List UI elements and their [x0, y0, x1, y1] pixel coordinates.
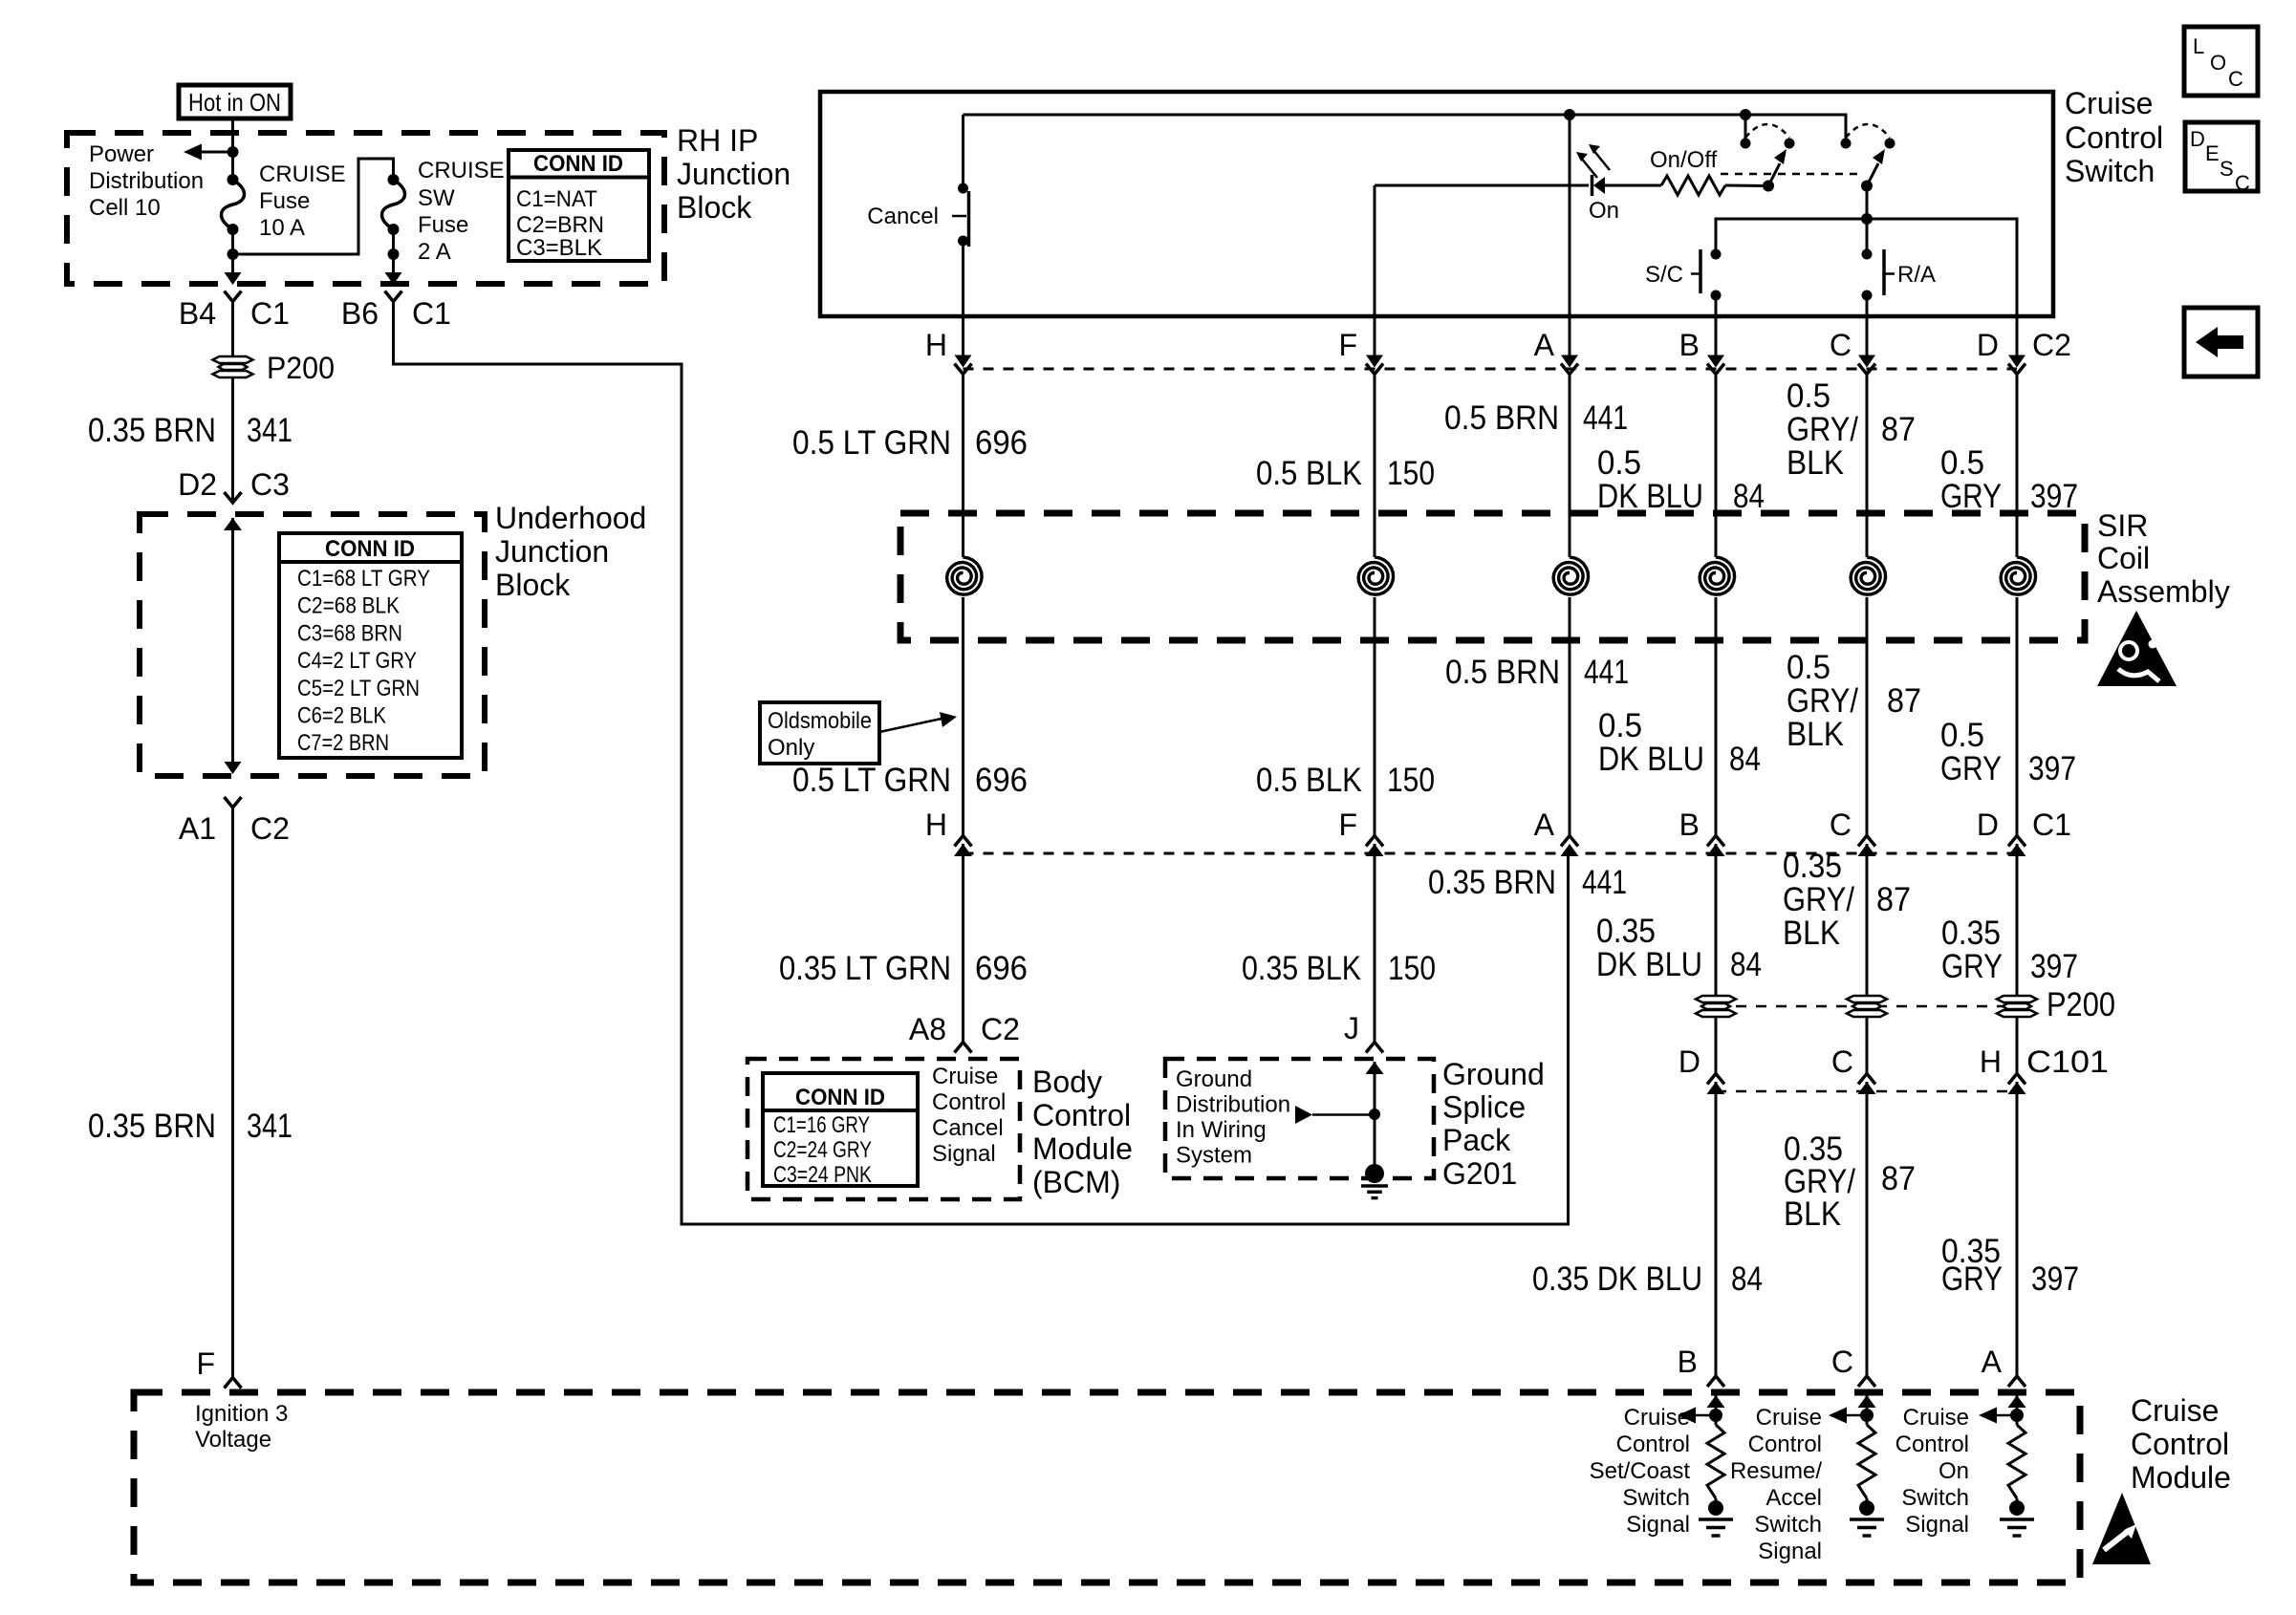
- wire SIR coil to C1 row: [1569, 597, 1571, 836]
- svg-text:Power: Power: [89, 141, 154, 167]
- svg-text:C2=68 BLK: C2=68 BLK: [297, 593, 400, 619]
- svg-text:0.5 BLK: 0.5 BLK: [1256, 455, 1362, 492]
- ground dot set/coast: [1708, 1500, 1723, 1516]
- inline connector P200 pin B: [1696, 996, 1736, 1017]
- svg-text:C1=68 LT GRY: C1=68 LT GRY: [297, 566, 430, 592]
- svg-text:R/A: R/A: [1897, 262, 1936, 288]
- resistor module set/coast pull-down: [1707, 1425, 1724, 1498]
- wire to SIR coil: [1715, 375, 1718, 558]
- connector C2 pin F chevron: [1366, 364, 1383, 375]
- svg-text:DK BLU: DK BLU: [1596, 946, 1702, 983]
- svg-text:C1: C1: [250, 296, 290, 331]
- switch R/A pushbutton: [1862, 249, 1873, 260]
- svg-text:Cruise: Cruise: [2065, 86, 2153, 120]
- wire R/A to pin C: [1866, 295, 1869, 355]
- stub to on/off switch contact: [1744, 115, 1747, 141]
- svg-text:Cruise: Cruise: [1903, 1405, 1969, 1431]
- switch internal top bus wire: [964, 115, 1847, 143]
- svg-text:BLK: BLK: [1787, 716, 1844, 753]
- module ESD triangle: [2092, 1493, 2151, 1564]
- wire pin F vertical: [1374, 185, 1376, 355]
- svg-text:10 A: 10 A: [259, 215, 305, 241]
- svg-text:0.5: 0.5: [1940, 444, 1984, 482]
- node top bus at on/off switch: [1740, 109, 1751, 120]
- svg-text:Control: Control: [2065, 120, 2163, 155]
- svg-text:Switch: Switch: [2065, 154, 2155, 188]
- Oldsmobile Only arrow: [879, 719, 942, 732]
- svg-text:Distribution: Distribution: [89, 168, 204, 194]
- svg-text:Signal: Signal: [1626, 1512, 1690, 1538]
- svg-text:System: System: [1176, 1143, 1252, 1169]
- connector row C1 dashed line: [964, 852, 2018, 855]
- wire to SIR coil: [1374, 375, 1376, 558]
- svg-text:S: S: [2220, 157, 2234, 181]
- switch on/off dashed arc: [1745, 124, 1789, 138]
- svg-text:0.5 BLK: 0.5 BLK: [1256, 762, 1362, 799]
- connector C2 pin D chevron: [2008, 364, 2025, 375]
- node ground distribution tap: [1369, 1109, 1380, 1120]
- switch on/off contacts: [1741, 139, 1751, 149]
- wire D C1 to P200: [2016, 844, 2019, 996]
- svg-text:C1=16 GRY: C1=16 GRY: [773, 1112, 870, 1138]
- svg-text:GRY/: GRY/: [1787, 411, 1858, 448]
- wire D P200 to C101: [2016, 1017, 2019, 1074]
- svg-text:C: C: [1830, 807, 1852, 842]
- wire SIR coil to C1 row: [2016, 597, 2019, 836]
- connector C101 pin D chevron: [1707, 1074, 1724, 1085]
- nav arrow box: [2184, 308, 2258, 377]
- wire B P200 to C101: [1715, 1017, 1718, 1074]
- svg-text:150: 150: [1388, 950, 1436, 987]
- switch resume contacts: [1841, 139, 1852, 149]
- wire Hot in ON to fuse F1: [231, 118, 234, 180]
- svg-text:D: D: [1977, 328, 1999, 362]
- resistor module resume/accel pull-down: [1858, 1425, 1875, 1498]
- svg-text:Set/Coast: Set/Coast: [1590, 1458, 1691, 1484]
- svg-text:0.5: 0.5: [1787, 377, 1830, 415]
- wire to SIR coil: [2016, 375, 2019, 558]
- svg-text:L: L: [2193, 34, 2204, 58]
- svg-text:C2=BRN: C2=BRN: [516, 212, 604, 238]
- wire SIR coil to C1 row: [1866, 597, 1869, 836]
- svg-text:C4=2 LT GRY: C4=2 LT GRY: [297, 648, 417, 674]
- svg-text:397: 397: [2028, 750, 2076, 787]
- svg-text:Control: Control: [1032, 1098, 1131, 1132]
- svg-text:341: 341: [247, 412, 292, 449]
- svg-text:Block: Block: [495, 568, 571, 602]
- svg-text:RH IP: RH IP: [677, 123, 758, 158]
- svg-text:C5=2 LT GRN: C5=2 LT GRN: [297, 676, 420, 701]
- svg-text:J: J: [1344, 1011, 1359, 1045]
- Cruise Control Module dashed box: [134, 1392, 2080, 1583]
- svg-text:150: 150: [1387, 762, 1435, 799]
- LOC box: [2184, 27, 2258, 96]
- ground symbol set/coast: [1699, 1519, 1733, 1536]
- connector row C101 dashed line: [1716, 1090, 2017, 1093]
- svg-text:C1=NAT: C1=NAT: [516, 186, 597, 212]
- SIR coil: [1553, 557, 1589, 594]
- svg-text:0.35: 0.35: [1941, 915, 2001, 952]
- connector C1 pin A arrow: [1561, 844, 1579, 856]
- svg-text:F: F: [196, 1346, 215, 1381]
- fuse CRUISE Fuse 10 A: [227, 174, 239, 185]
- svg-text:B6: B6: [341, 296, 379, 331]
- svg-text:D: D: [2190, 127, 2205, 151]
- wire fuse F1 to pin B4: [231, 254, 234, 274]
- Ground Splice Pack dashed box: [1165, 1059, 1434, 1178]
- svg-text:S/C: S/C: [1645, 262, 1683, 288]
- connector C1 pin F chevron: [1366, 836, 1383, 847]
- svg-text:A: A: [1534, 328, 1555, 362]
- connector C1 pin A chevron: [1561, 836, 1578, 847]
- Underhood Junction Block dashed box: [140, 514, 485, 776]
- svg-text:0.5 LT GRN: 0.5 LT GRN: [792, 424, 951, 462]
- svg-text:397: 397: [2031, 1260, 2079, 1298]
- svg-text:F: F: [1338, 328, 1357, 362]
- svg-text:Ground: Ground: [1442, 1057, 1545, 1091]
- connector C101 pin H arrow: [2008, 1082, 2026, 1094]
- switch arm on/off: [1768, 163, 1780, 186]
- svg-text:441: 441: [1583, 399, 1628, 437]
- wire F C1 to G201: [1374, 844, 1376, 1043]
- svg-text:696: 696: [975, 424, 1028, 462]
- svg-text:CONN ID: CONN ID: [325, 536, 415, 562]
- resistor On/Off: [1661, 176, 1725, 195]
- conn id table RH IP JB: [509, 150, 649, 261]
- wire circuit 441 B6 to switch pin A loop: [394, 302, 1569, 1225]
- svg-text:B: B: [1679, 807, 1700, 842]
- wire B4 to P200: [231, 302, 234, 357]
- svg-text:H: H: [925, 807, 947, 842]
- wire through UJB: [231, 518, 234, 763]
- svg-text:Block: Block: [677, 190, 752, 225]
- svg-text:CONN ID: CONN ID: [533, 151, 623, 177]
- wire resistor to ground on: [2016, 1498, 2019, 1510]
- svg-text:0.35: 0.35: [1783, 848, 1842, 885]
- SIR coil: [2001, 557, 2036, 594]
- svg-text:Splice: Splice: [1442, 1090, 1526, 1125]
- svg-text:C2: C2: [981, 1012, 1020, 1046]
- ground symbol on: [2000, 1519, 2034, 1536]
- svg-text:BLK: BLK: [1787, 444, 1844, 482]
- wire C C101 to module: [1866, 1082, 1869, 1376]
- node top bus at column A: [1564, 109, 1575, 120]
- svg-text:84: 84: [1733, 478, 1765, 515]
- connector pin B6 chevron: [385, 291, 402, 302]
- svg-text:GRY: GRY: [1941, 1260, 2003, 1298]
- arrow module set/coast signal: [1678, 1408, 1696, 1424]
- wire module set/coast input: [1715, 1395, 1718, 1425]
- svg-text:Cruise: Cruise: [932, 1064, 998, 1089]
- svg-text:Hot in ON: Hot in ON: [188, 88, 281, 117]
- svg-text:GRY/: GRY/: [1787, 682, 1858, 720]
- connector C1 pin B chevron: [1707, 836, 1724, 847]
- svg-text:C2: C2: [250, 811, 290, 846]
- connector C2 pin A chevron: [1561, 364, 1578, 375]
- wire resistor to ground resume/accel: [1866, 1498, 1869, 1510]
- wire H C1 to BCM: [962, 844, 964, 1043]
- svg-text:Signal: Signal: [932, 1141, 996, 1167]
- wire pin A vertical: [1569, 115, 1571, 355]
- svg-text:696: 696: [975, 762, 1028, 799]
- connector row P200 dashed line: [1716, 1005, 2017, 1008]
- svg-text:GRY/: GRY/: [1783, 881, 1854, 918]
- svg-text:397: 397: [2030, 478, 2078, 515]
- svg-text:C3=24 PNK: C3=24 PNK: [773, 1162, 872, 1188]
- Cruise Control Switch box: [820, 92, 2053, 316]
- wire to SIR coil: [1569, 375, 1571, 558]
- connector C101 pin H chevron: [2008, 1074, 2025, 1085]
- switch resume arm pivot: [1861, 181, 1873, 192]
- svg-text:D: D: [1679, 1044, 1700, 1079]
- svg-text:A8: A8: [909, 1012, 946, 1046]
- svg-text:Fuse: Fuse: [259, 188, 310, 214]
- svg-text:A: A: [1982, 1345, 2003, 1379]
- svg-text:Control: Control: [1895, 1432, 1969, 1457]
- connector module pin C arrow: [1858, 1395, 1876, 1408]
- svg-text:SW: SW: [418, 185, 455, 211]
- wire LED to resistor: [1605, 184, 1661, 187]
- wire top bus to Cancel switch: [962, 115, 964, 188]
- svg-text:C3: C3: [250, 467, 290, 502]
- svg-text:696: 696: [975, 950, 1028, 987]
- connector C1 pin F arrow: [1366, 844, 1384, 856]
- svg-text:GRY: GRY: [1941, 948, 2003, 985]
- resistor module on pull-down: [2008, 1425, 2025, 1498]
- wire LED feed from pin F: [1375, 184, 1589, 187]
- svg-text:0.5 BRN: 0.5 BRN: [1445, 654, 1560, 691]
- svg-text:441: 441: [1584, 654, 1629, 691]
- svg-text:Cancel: Cancel: [867, 204, 939, 229]
- indicator LED On: [1591, 175, 1594, 196]
- connector pin B4 arrow: [225, 272, 242, 285]
- svg-text:Resume/: Resume/: [1730, 1458, 1822, 1484]
- svg-text:Oldsmobile: Oldsmobile: [768, 708, 872, 734]
- svg-text:GRY: GRY: [1940, 750, 2002, 787]
- svg-text:Ground: Ground: [1176, 1066, 1252, 1092]
- svg-text:Cruise: Cruise: [1756, 1405, 1822, 1431]
- svg-text:Underhood: Underhood: [495, 501, 646, 535]
- svg-text:2 A: 2 A: [418, 239, 451, 265]
- wire resistor to ground set/coast: [1715, 1498, 1718, 1510]
- svg-text:Cruise: Cruise: [2131, 1393, 2219, 1428]
- svg-text:Junction: Junction: [495, 534, 609, 569]
- connector module pin A arrow: [2008, 1395, 2026, 1408]
- svg-text:BLK: BLK: [1783, 915, 1840, 952]
- connector C1 pin C chevron: [1858, 836, 1875, 847]
- LED light arrows: [1581, 158, 1597, 178]
- inline connector P200 pin D: [1997, 996, 2037, 1017]
- svg-text:397: 397: [2030, 948, 2078, 985]
- connector module pin A chevron: [2008, 1376, 2025, 1387]
- wire C P200 to C101: [1866, 1017, 1869, 1074]
- svg-text:0.35 BRN: 0.35 BRN: [88, 1108, 216, 1145]
- svg-text:CRUISE: CRUISE: [259, 161, 346, 187]
- wire S/C to pin B: [1715, 295, 1718, 355]
- connector C101 pin D arrow: [1707, 1082, 1725, 1094]
- connector C101 pin C chevron: [1858, 1074, 1875, 1085]
- conn id table BCM: [763, 1073, 918, 1186]
- connector C2 pin H chevron: [955, 364, 972, 375]
- svg-text:C2=24 GRY: C2=24 GRY: [773, 1137, 872, 1163]
- connector A1 chevron: [225, 797, 242, 807]
- svg-text:D: D: [1977, 807, 1999, 842]
- node module set/coast tap: [1709, 1409, 1722, 1422]
- svg-text:441: 441: [1582, 864, 1627, 901]
- wire C C1 to P200: [1866, 844, 1869, 996]
- svg-text:0.5: 0.5: [1598, 707, 1642, 744]
- switch S/C pushbutton: [1711, 249, 1722, 260]
- svg-text:SIR: SIR: [2097, 508, 2148, 543]
- wire Cancel to pin H: [962, 241, 964, 355]
- switch Cancel pushbutton: [958, 183, 968, 194]
- mechanical link dashed line: [1721, 173, 1862, 176]
- svg-text:0.35 BLK: 0.35 BLK: [1242, 950, 1361, 987]
- svg-text:P200: P200: [267, 351, 335, 385]
- connector C101 pin C arrow: [1858, 1082, 1876, 1094]
- arrow module on signal: [1979, 1408, 1997, 1424]
- svg-text:C: C: [1830, 328, 1852, 362]
- connector C2 pin B chevron: [1707, 364, 1724, 375]
- Body Control Module dashed box: [747, 1059, 1020, 1199]
- arrow ground distribution: [1295, 1106, 1312, 1124]
- connector D2 chevron: [225, 492, 242, 503]
- arrow module resume/accel signal: [1829, 1408, 1847, 1424]
- svg-text:C: C: [2228, 67, 2243, 91]
- conn id table UJB: [279, 533, 462, 758]
- svg-text:84: 84: [1730, 946, 1762, 983]
- SIR warning triangle: [2097, 611, 2177, 686]
- svg-text:Module: Module: [1032, 1131, 1133, 1166]
- SIR coil: [1851, 557, 1886, 594]
- connector C2 pin F arrow: [1366, 355, 1383, 368]
- node S/C R/A bus: [1861, 213, 1873, 225]
- ground symbol resume/accel: [1850, 1519, 1884, 1536]
- connector C2 pin C chevron: [1858, 364, 1875, 375]
- svg-text:Distribution: Distribution: [1176, 1092, 1290, 1118]
- svg-text:Only: Only: [768, 735, 814, 761]
- svg-text:0.5: 0.5: [1597, 444, 1641, 482]
- svg-text:Fuse: Fuse: [418, 212, 468, 238]
- wire SIR coil to C1 row: [962, 597, 964, 836]
- wire to SIR coil: [962, 375, 964, 558]
- svg-text:Switch: Switch: [1901, 1485, 1969, 1511]
- svg-text:C: C: [1831, 1044, 1853, 1079]
- svg-text:H: H: [925, 328, 947, 362]
- wire to SIR coil: [1866, 375, 1869, 558]
- switch resume dashed arc: [1846, 124, 1890, 138]
- connector row C2 dashed line: [964, 368, 2018, 371]
- svg-text:Control: Control: [2131, 1427, 2229, 1461]
- svg-text:0.35: 0.35: [1596, 913, 1656, 950]
- svg-text:Module: Module: [2131, 1460, 2231, 1495]
- connector C1 pin D chevron: [2008, 836, 2025, 847]
- svg-text:GRY: GRY: [1940, 478, 2002, 515]
- svg-text:H: H: [1980, 1044, 2002, 1079]
- inline connector P200 left: [213, 356, 253, 377]
- svg-text:On: On: [1939, 1458, 1969, 1484]
- connector C1 pin D arrow: [2008, 844, 2026, 856]
- svg-text:Switch: Switch: [1622, 1485, 1690, 1511]
- svg-text:87: 87: [1881, 411, 1916, 448]
- svg-text:B: B: [1678, 1345, 1698, 1379]
- connector C1 pin H chevron: [955, 836, 972, 847]
- svg-text:D2: D2: [178, 467, 217, 502]
- node junction to Power Distribution: [227, 146, 239, 158]
- svg-text:Cell 10: Cell 10: [89, 195, 161, 221]
- arrow to Power Distribution: [184, 144, 202, 161]
- connector C1 pin H arrow: [954, 844, 972, 856]
- SIR coil: [1358, 557, 1394, 594]
- svg-text:B4: B4: [179, 296, 216, 331]
- svg-text:Control: Control: [1616, 1432, 1690, 1457]
- svg-text:In Wiring: In Wiring: [1176, 1117, 1267, 1143]
- node module resume/accel tap: [1860, 1409, 1874, 1422]
- DESC box: [2185, 122, 2258, 191]
- svg-text:E: E: [2205, 141, 2220, 165]
- wire S/C R/A bus: [1716, 219, 2017, 355]
- svg-text:0.35 LT GRN: 0.35 LT GRN: [779, 950, 951, 987]
- svg-text:Ignition 3: Ignition 3: [195, 1401, 288, 1427]
- svg-text:On: On: [1589, 198, 1619, 224]
- svg-text:DK BLU: DK BLU: [1597, 478, 1703, 515]
- svg-text:C1: C1: [412, 296, 451, 331]
- svg-text:Accel: Accel: [1765, 1485, 1822, 1511]
- wire B C1 to P200: [1715, 844, 1718, 996]
- svg-text:B: B: [1679, 328, 1700, 362]
- wire resistor to switch arm: [1725, 184, 1768, 188]
- wire A1 to module pin F: [231, 807, 234, 1378]
- ground G201 symbol: [1361, 1186, 1388, 1198]
- connector D2 arrow into UJB: [224, 518, 242, 530]
- connector module pin B chevron: [1707, 1376, 1724, 1387]
- switch arm on/off pivot: [1763, 181, 1774, 192]
- svg-text:0.35 BRN: 0.35 BRN: [1428, 864, 1556, 901]
- SIR coil: [1700, 557, 1735, 594]
- SIR Coil Assembly dashed box: [900, 513, 2085, 640]
- svg-text:BLK: BLK: [1784, 1195, 1841, 1233]
- connector A8 chevron: [955, 1043, 972, 1053]
- svg-text:87: 87: [1887, 682, 1921, 720]
- svg-text:CRUISE: CRUISE: [418, 158, 505, 183]
- fuse CRUISE SW Fuse 2 A: [388, 174, 400, 185]
- ground dot resume/accel: [1859, 1500, 1874, 1516]
- svg-text:84: 84: [1731, 1260, 1763, 1298]
- SIR coil: [947, 557, 983, 594]
- svg-text:Voltage: Voltage: [195, 1427, 271, 1453]
- wire resume arm to bus: [1866, 186, 1869, 255]
- svg-text:C7=2 BRN: C7=2 BRN: [297, 730, 389, 756]
- svg-text:Switch: Switch: [1754, 1512, 1822, 1538]
- svg-text:DK BLU: DK BLU: [1598, 741, 1704, 778]
- connector C2 pin D arrow: [2008, 355, 2025, 368]
- ground dot on: [2009, 1500, 2025, 1516]
- node fuse F2 output: [388, 248, 400, 260]
- svg-text:0.35 DK BLU: 0.35 DK BLU: [1532, 1260, 1702, 1298]
- svg-text:C3=BLK: C3=BLK: [516, 235, 602, 261]
- connector C2 pin A arrow: [1561, 355, 1578, 368]
- svg-text:Control: Control: [932, 1089, 1006, 1115]
- node fuse F1 output: [227, 248, 239, 260]
- wire SIR coil to C1 row: [1374, 597, 1376, 836]
- wire P200 to D2: [231, 377, 234, 503]
- svg-text:Signal: Signal: [1905, 1512, 1969, 1538]
- svg-text:C3=68 BRN: C3=68 BRN: [297, 620, 402, 646]
- svg-text:(BCM): (BCM): [1032, 1165, 1120, 1199]
- node module on tap: [2010, 1409, 2024, 1422]
- inline connector P200 pin C: [1847, 996, 1887, 1017]
- svg-text:0.5 BRN: 0.5 BRN: [1444, 399, 1559, 437]
